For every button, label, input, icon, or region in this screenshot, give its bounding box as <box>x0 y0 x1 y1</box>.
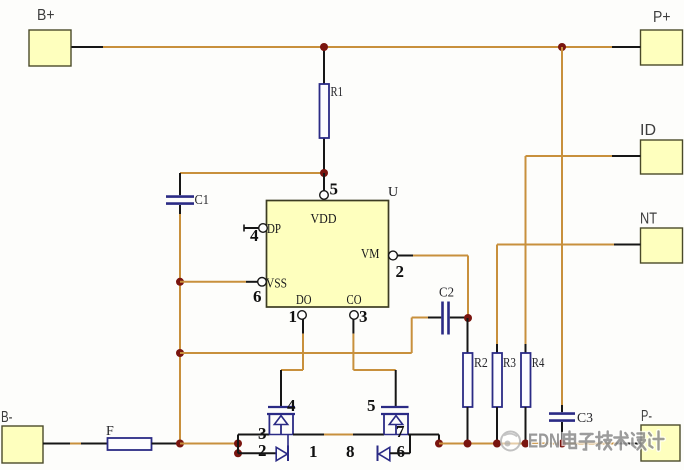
pin 4 DP <box>244 224 267 245</box>
node FET diode branch <box>234 449 242 457</box>
svg-text:F: F <box>106 424 114 439</box>
node bottom rail left <box>176 440 184 448</box>
svg-text:R2: R2 <box>474 356 488 371</box>
wire drain2 to rail <box>408 435 439 444</box>
node C2/VM/R2 <box>464 314 472 322</box>
watermark logo <box>501 432 520 451</box>
svg-text:B-: B- <box>1 409 13 426</box>
wire lower branch to C2 <box>180 318 428 354</box>
capacitor C1 <box>166 173 209 214</box>
wire drain1 to drain2 <box>293 435 384 462</box>
svg-text:VDD: VDD <box>311 212 337 227</box>
resistor R3 <box>493 344 517 444</box>
svg-text:5: 5 <box>367 396 376 415</box>
pin 1 DO <box>289 307 307 326</box>
svg-text:R4: R4 <box>532 356 545 371</box>
node top-rail/R1 <box>320 43 328 51</box>
svg-text:ID: ID <box>640 122 656 139</box>
wire P+ stub <box>612 46 641 48</box>
wire ID branch <box>526 156 641 344</box>
svg-text:B+: B+ <box>37 7 55 24</box>
pin 5 <box>320 180 338 200</box>
svg-text:C3: C3 <box>577 411 593 426</box>
svg-text:2: 2 <box>396 262 405 281</box>
svg-text:2: 2 <box>258 441 267 460</box>
wire CO to gate2 <box>353 319 395 407</box>
wire P+ vertical to C3 <box>561 47 563 405</box>
diode D1 (Q1 body diode) <box>276 435 288 462</box>
diode D2 (Q2 body diode) <box>378 435 411 462</box>
node R4 bottom <box>522 440 530 448</box>
watermark CJK glyphs <box>564 432 664 450</box>
svg-text:4: 4 <box>250 226 259 245</box>
wire NT branch <box>497 245 641 345</box>
svg-text:CO: CO <box>347 293 362 308</box>
node R2 bottom <box>464 440 472 448</box>
svg-text:VM: VM <box>361 247 380 262</box>
svg-text:1: 1 <box>309 442 318 461</box>
svg-text:U: U <box>388 185 398 200</box>
wire bottom rail right <box>439 443 616 445</box>
svg-text:P+: P+ <box>653 9 671 26</box>
wire pin5 stub <box>323 173 325 192</box>
pin 2 VM <box>389 251 404 281</box>
port P+ <box>641 9 683 65</box>
wire B- stub <box>43 443 108 445</box>
svg-text:6: 6 <box>397 442 406 461</box>
svg-text:NT: NT <box>640 211 657 228</box>
transistor Q2 <box>367 396 409 461</box>
port B+ <box>29 7 71 66</box>
wire bottom rail left <box>180 443 238 445</box>
resistor R4 <box>521 344 544 444</box>
resistor R1 <box>320 47 344 173</box>
svg-text:VSS: VSS <box>266 277 287 292</box>
node lower branch <box>176 349 184 357</box>
wire B+ stub <box>72 46 104 48</box>
op-amp U1 IC body <box>266 185 398 308</box>
node top-rail/P+ drop <box>558 43 566 51</box>
node C1/R1/pin5 <box>320 169 328 177</box>
node C3 bottom <box>558 440 566 448</box>
wire C1 vertical <box>179 214 181 444</box>
svg-text:C1: C1 <box>195 193 210 208</box>
svg-text:DP: DP <box>267 222 281 237</box>
svg-text:4: 4 <box>287 396 296 415</box>
node VSS branch <box>176 278 184 286</box>
wire DO to gate1 <box>281 319 303 407</box>
wire diode branch <box>238 444 276 454</box>
wire P- stub <box>616 443 641 445</box>
svg-text:P-: P- <box>641 408 652 425</box>
resistor R2 <box>463 318 488 444</box>
wire VSS branch <box>180 281 258 283</box>
wire fuse to node <box>152 443 181 445</box>
wire C1 top rail <box>180 172 324 174</box>
port ID <box>640 122 683 174</box>
wire VM to C2 node <box>397 256 468 319</box>
port NT <box>640 211 683 264</box>
capacitor C2 <box>428 286 468 335</box>
node Q2/rail <box>435 440 443 448</box>
svg-text:R3: R3 <box>503 356 516 371</box>
port B- <box>1 409 43 463</box>
port P- <box>641 408 680 461</box>
node R3 bottom <box>493 440 501 448</box>
pin 3 CO <box>350 307 368 326</box>
svg-text:C2: C2 <box>439 286 454 301</box>
svg-text:6: 6 <box>253 287 262 306</box>
node FET source branch <box>234 440 242 448</box>
svg-text:8: 8 <box>346 442 355 461</box>
svg-text:R1: R1 <box>331 85 344 100</box>
svg-text:EDN: EDN <box>528 431 560 453</box>
capacitor C3 <box>549 405 593 444</box>
svg-text:5: 5 <box>330 180 339 199</box>
transistor Q1 <box>258 396 296 460</box>
svg-text:7: 7 <box>396 422 405 441</box>
svg-text:1: 1 <box>289 307 298 326</box>
pin 6 VSS <box>253 278 266 307</box>
wire top rail <box>103 46 612 48</box>
fuse F <box>106 424 152 450</box>
wire source branch <box>238 435 269 444</box>
svg-text:3: 3 <box>359 307 368 326</box>
svg-text:DO: DO <box>296 293 312 308</box>
